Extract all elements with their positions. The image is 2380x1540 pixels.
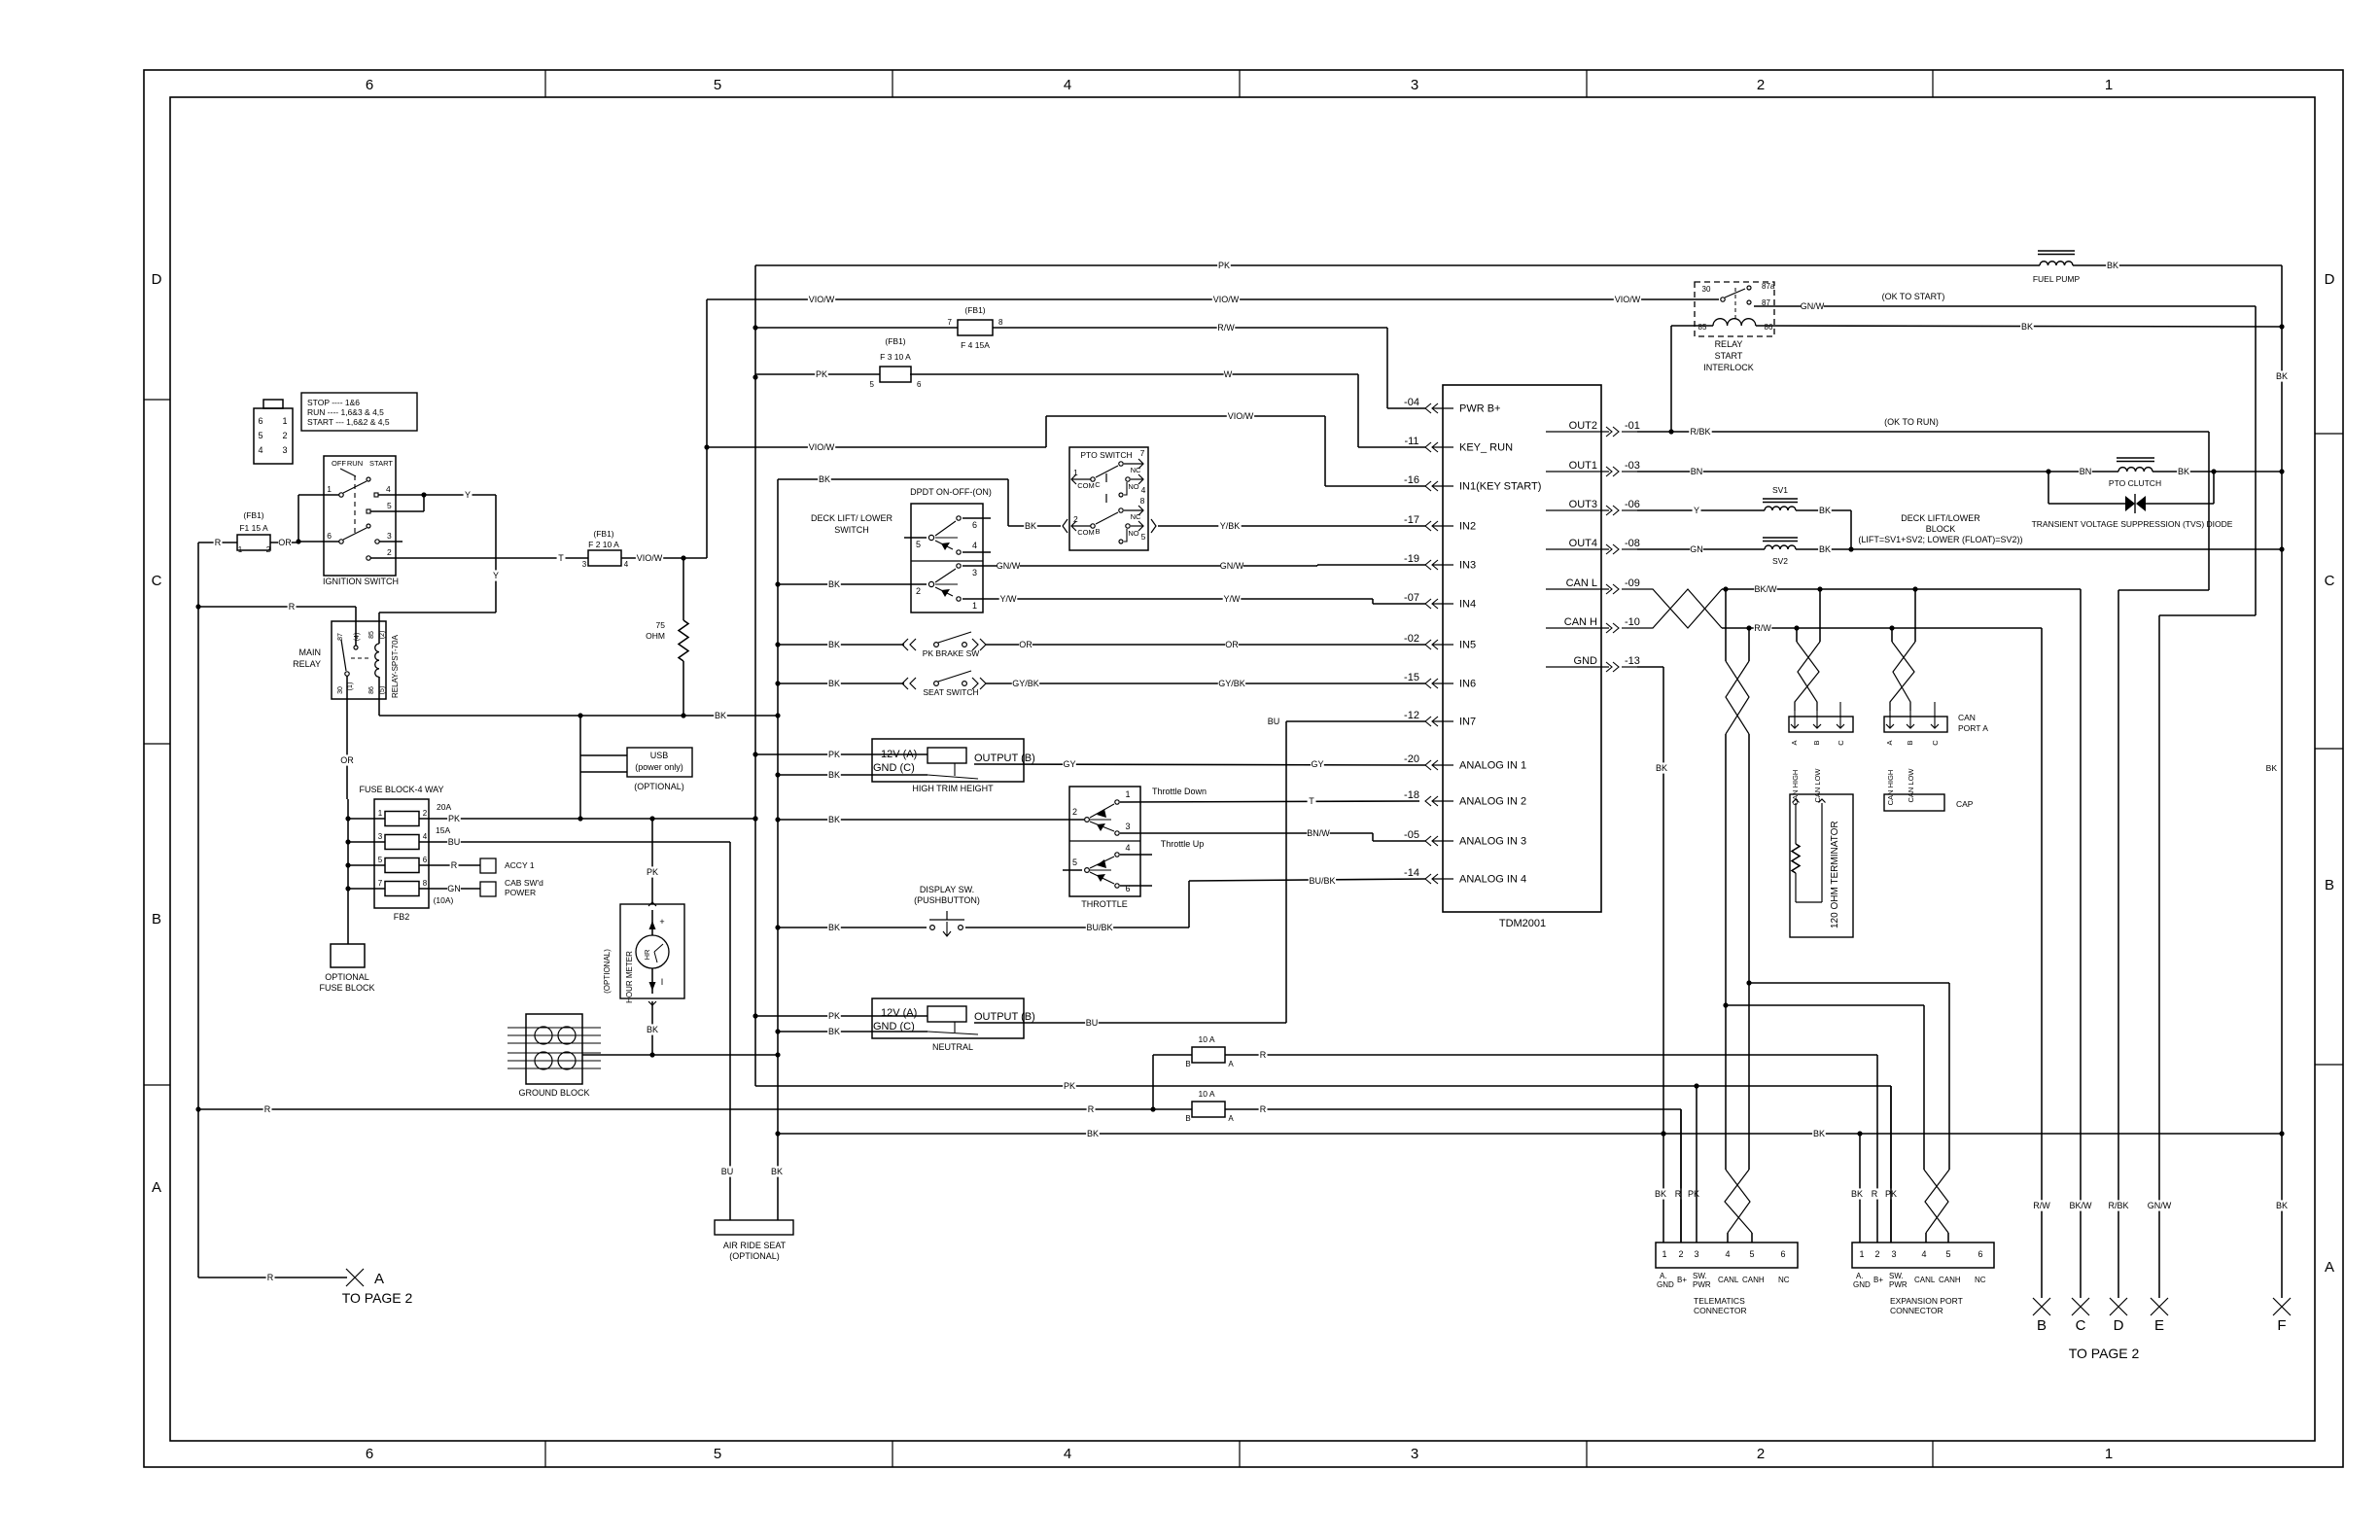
svg-text:A.: A.: [1856, 1272, 1864, 1280]
svg-text:OHM: OHM: [646, 631, 665, 641]
svg-text:BN: BN: [2080, 467, 2092, 476]
svg-text:ANALOG IN 3: ANALOG IN 3: [1459, 836, 1526, 848]
svg-text:BK: BK: [828, 815, 840, 824]
svg-text:START --- 1,6&2 & 4,5: START --- 1,6&2 & 4,5: [307, 417, 390, 427]
svg-text:1: 1: [1125, 789, 1130, 799]
svg-text:A: A: [374, 1271, 384, 1287]
wire BN/W throttle up to ANALOG IN3: [1120, 832, 1373, 834]
svg-text:PWR: PWR: [1693, 1280, 1711, 1289]
svg-text:BK: BK: [771, 1167, 783, 1176]
telematics connector J2: [1656, 1242, 1798, 1268]
svg-text:(OK TO RUN): (OK TO RUN): [1884, 417, 1939, 427]
svg-text:(OK TO START): (OK TO START): [1882, 292, 1945, 301]
to page 2 marker E: [2151, 1298, 2168, 1315]
svg-text:4: 4: [1125, 843, 1130, 853]
wire R left vertical: [197, 542, 199, 1277]
svg-text:VIO/W: VIO/W: [809, 442, 835, 452]
svg-text:SV1: SV1: [1772, 485, 1788, 495]
svg-text:BN/W: BN/W: [1307, 828, 1330, 838]
svg-text:F1 15 A: F1 15 A: [239, 523, 268, 533]
optional fuse block box: [347, 908, 349, 944]
telematics wire labels: [1654, 1188, 1667, 1199]
twisted pair to CAN PORT A left: [1819, 589, 1821, 642]
svg-text:IN2: IN2: [1459, 521, 1476, 533]
wire R/BK OUT2 ok-to-run: [1637, 431, 2209, 433]
svg-text:1: 1: [1662, 1249, 1666, 1259]
wire T throttle down to ANALOG IN2: [1120, 801, 1419, 802]
svg-text:DECK LIFT/ LOWER: DECK LIFT/ LOWER: [811, 513, 893, 523]
svg-text:BK: BK: [819, 474, 830, 484]
svg-text:30: 30: [1702, 285, 1711, 294]
wire BK to neutral C: [778, 1031, 927, 1032]
svg-text:4: 4: [1064, 1446, 1071, 1462]
potentiometer block HIGH TRIM HEIGHT: [872, 739, 1024, 782]
ignition switch contact 4: [374, 493, 378, 497]
svg-text:10 A: 10 A: [1198, 1089, 1214, 1099]
svg-text:10 A: 10 A: [1198, 1034, 1214, 1044]
svg-text:GN/W: GN/W: [1220, 561, 1244, 571]
ignition switch contact 5: [367, 509, 370, 513]
svg-text:3: 3: [1891, 1249, 1896, 1259]
svg-text:PK: PK: [1064, 1081, 1075, 1091]
svg-text:CAN LOW: CAN LOW: [1813, 768, 1822, 803]
svg-text:BK: BK: [1656, 763, 1667, 773]
svg-text:2: 2: [266, 545, 271, 554]
svg-text:5: 5: [258, 431, 262, 440]
svg-text:AIR RIDE SEAT: AIR RIDE SEAT: [723, 1241, 787, 1250]
svg-text:GND (C): GND (C): [873, 1021, 915, 1032]
svg-text:1: 1: [2105, 1446, 2113, 1462]
svg-text:CONNECTOR: CONNECTOR: [1890, 1306, 1943, 1315]
svg-text:OFF: OFF: [332, 459, 346, 468]
to page 2 marker F: [2273, 1298, 2291, 1315]
svg-text:D: D: [2114, 1317, 2124, 1334]
svg-text:NC: NC: [1975, 1276, 1986, 1284]
svg-text:POWER: POWER: [505, 888, 536, 897]
svg-text:GN/W: GN/W: [2148, 1201, 2172, 1210]
ACCY 1 box: [480, 858, 496, 873]
svg-text:I: I: [661, 977, 664, 987]
svg-text:-13: -13: [1625, 655, 1640, 667]
svg-text:-18: -18: [1404, 789, 1419, 801]
svg-text:Y/W: Y/W: [1224, 594, 1242, 604]
wire GY high trim B to ANALOG IN1: [974, 764, 1425, 765]
svg-text:PWR: PWR: [1889, 1280, 1907, 1289]
svg-text:7: 7: [1140, 448, 1145, 458]
svg-text:(PUSHBUTTON): (PUSHBUTTON): [914, 895, 980, 905]
svg-text:NC: NC: [1131, 466, 1141, 474]
to page 2 marker A: [346, 1269, 364, 1286]
main relay blade and pivot: [341, 640, 346, 671]
svg-text:OUTPUT (B): OUTPUT (B): [974, 752, 1035, 764]
svg-text:PK: PK: [816, 369, 827, 379]
svg-text:PK BRAKE SW: PK BRAKE SW: [923, 648, 980, 658]
svg-text:CAN HIGH: CAN HIGH: [1886, 770, 1895, 806]
wire R from FB2 to ACCY1: [419, 864, 480, 866]
svg-text:2: 2: [282, 431, 287, 440]
ignition switch blade pole 6: [343, 528, 367, 540]
svg-text:RELAY: RELAY: [293, 659, 321, 669]
svg-text:CANL: CANL: [1914, 1276, 1936, 1284]
svg-text:-15: -15: [1404, 672, 1419, 683]
svg-text:B: B: [1906, 740, 1914, 745]
svg-text:-11: -11: [1404, 436, 1418, 447]
svg-text:KEY_ RUN: KEY_ RUN: [1459, 442, 1513, 454]
PTO pole B NC contact: [1119, 508, 1123, 512]
svg-text:5: 5: [916, 540, 921, 549]
svg-text:BU: BU: [1086, 1018, 1099, 1028]
svg-text:-03: -03: [1625, 460, 1640, 472]
svg-text:1: 1: [2105, 77, 2113, 93]
VIO/W feed vertical: [706, 299, 708, 558]
svg-text:GN/W: GN/W: [1801, 301, 1825, 311]
svg-text:ANALOG IN 1: ANALOG IN 1: [1459, 760, 1526, 772]
svg-text:3: 3: [972, 568, 977, 577]
svg-text:3: 3: [582, 560, 587, 569]
svg-text:C: C: [152, 573, 162, 589]
svg-text:IN5: IN5: [1459, 640, 1476, 651]
frame column ticks top: [544, 70, 546, 97]
air ride seat box: [715, 1220, 793, 1235]
wire GN from FB2 to CAB power: [419, 888, 480, 890]
svg-text:BK: BK: [1087, 1129, 1099, 1138]
svg-text:C: C: [1095, 480, 1101, 489]
terminator 120 ohm box: [1790, 794, 1853, 937]
svg-text:87a: 87a: [1762, 282, 1775, 291]
svg-text:7: 7: [948, 318, 953, 327]
svg-text:B: B: [2037, 1317, 2047, 1334]
svg-text:5: 5: [378, 856, 383, 864]
svg-text:PK: PK: [1218, 261, 1230, 270]
throttle pole 5: [1085, 868, 1090, 873]
wire R bottom run: [198, 1108, 1681, 1110]
svg-text:CANH: CANH: [1742, 1276, 1765, 1284]
svg-text:TDM2001: TDM2001: [1499, 918, 1546, 929]
svg-text:PORT A: PORT A: [1958, 723, 1988, 733]
wire ground block to bus: [582, 1054, 778, 1056]
svg-text:C: C: [1931, 740, 1940, 746]
svg-text:1: 1: [1859, 1249, 1864, 1259]
svg-text:(LIFT=SV1+SV2; LOWER (FLOAT)=S: (LIFT=SV1+SV2; LOWER (FLOAT)=SV2)): [1858, 535, 2022, 544]
svg-text:BU/BK: BU/BK: [1309, 876, 1335, 886]
svg-text:4: 4: [624, 560, 629, 569]
svg-text:FUSE BLOCK-4 WAY: FUSE BLOCK-4 WAY: [359, 785, 443, 794]
svg-text:A: A: [1228, 1114, 1234, 1123]
svg-text:87: 87: [337, 633, 344, 641]
svg-text:-09: -09: [1625, 577, 1640, 589]
svg-text:NC: NC: [1778, 1276, 1790, 1284]
svg-text:SWITCH: SWITCH: [834, 525, 869, 535]
svg-text:GY/BK: GY/BK: [1012, 679, 1039, 688]
wire BK to PTO switch: [778, 478, 1008, 480]
svg-text:GN: GN: [447, 884, 461, 893]
svg-text:6: 6: [1780, 1249, 1785, 1259]
svg-text:RELAY: RELAY: [1715, 339, 1743, 349]
wire OR main relay 30 to fuse block: [346, 676, 348, 699]
svg-text:BK: BK: [1655, 1189, 1666, 1199]
svg-text:B: B: [1185, 1060, 1190, 1068]
svg-text:GROUND BLOCK: GROUND BLOCK: [518, 1088, 589, 1098]
svg-text:IN1(KEY START): IN1(KEY START): [1459, 481, 1541, 493]
svg-text:5: 5: [387, 501, 392, 510]
svg-text:2: 2: [916, 586, 921, 596]
svg-text:Y: Y: [1694, 506, 1699, 515]
wire PK to neutral A: [755, 1015, 927, 1017]
svg-text:R/W: R/W: [1754, 623, 1771, 633]
svg-text:B: B: [152, 911, 161, 927]
svg-text:VIO/W: VIO/W: [1213, 295, 1240, 304]
to page 2 marker D: [2110, 1298, 2127, 1315]
svg-text:3: 3: [1411, 1446, 1418, 1462]
svg-text:F 4 15A: F 4 15A: [961, 340, 990, 350]
ignition switch contact 3: [375, 540, 379, 543]
svg-text:Y/BK: Y/BK: [1220, 521, 1241, 531]
svg-text:C: C: [1837, 740, 1845, 746]
svg-text:3: 3: [1411, 77, 1418, 93]
svg-text:RELAY-SPST-70A: RELAY-SPST-70A: [391, 634, 400, 698]
svg-text:BU: BU: [1268, 717, 1280, 726]
deck lift/lower switch S2 DPDT box: [911, 504, 983, 612]
svg-text:PK: PK: [1688, 1189, 1699, 1199]
svg-text:R: R: [1088, 1104, 1095, 1114]
svg-text:A: A: [1885, 740, 1894, 745]
svg-text:2: 2: [423, 809, 428, 818]
svg-text:4: 4: [972, 541, 977, 550]
svg-text:75: 75: [656, 620, 666, 630]
svg-text:NEUTRAL: NEUTRAL: [932, 1042, 973, 1052]
svg-text:(OPTIONAL): (OPTIONAL): [603, 949, 612, 994]
svg-text:15A: 15A: [436, 825, 450, 835]
wire BK PTO clutch to right bus: [2152, 471, 2282, 472]
svg-text:TO PAGE 2: TO PAGE 2: [342, 1290, 413, 1306]
svg-text:VIO/W: VIO/W: [637, 553, 663, 563]
svg-text:2: 2: [1874, 1249, 1879, 1259]
TVS diode D1: [2047, 472, 2049, 504]
svg-text:R/BK: R/BK: [1690, 427, 1710, 437]
expansion wire labels: [1850, 1188, 1864, 1199]
svg-text:6: 6: [327, 531, 332, 541]
twisted pair to CAN PORT A right: [1914, 589, 1916, 642]
svg-text:GND (C): GND (C): [873, 762, 915, 774]
svg-text:CAB SW'd: CAB SW'd: [505, 878, 543, 888]
svg-text:DECK LIFT/LOWER: DECK LIFT/LOWER: [1901, 513, 1980, 523]
svg-text:R: R: [451, 860, 458, 870]
svg-text:BK: BK: [1025, 521, 1036, 531]
wire BK to air ride seat: [770, 1166, 784, 1176]
svg-text:1: 1: [327, 484, 332, 494]
svg-text:5: 5: [870, 380, 875, 389]
svg-text:5: 5: [1945, 1249, 1950, 1259]
svg-text:CANH: CANH: [1939, 1276, 1961, 1284]
ignition switch contact 1: [339, 493, 343, 497]
svg-text:85: 85: [1698, 323, 1707, 332]
svg-text:GND: GND: [1657, 1280, 1674, 1289]
svg-text:BK: BK: [828, 770, 840, 780]
switch PK BRAKE SW: [778, 644, 904, 646]
wire BK main relay to ground bus: [379, 715, 778, 717]
USB power box: [627, 748, 692, 777]
svg-text:BU/BK: BU/BK: [1086, 923, 1112, 932]
svg-text:DISPLAY SW.: DISPLAY SW.: [920, 885, 974, 894]
wire USB pins to bus: [579, 716, 581, 819]
svg-text:IN7: IN7: [1459, 717, 1476, 728]
svg-text:(OPTIONAL): (OPTIONAL): [729, 1251, 780, 1261]
main relay coil: [375, 644, 379, 677]
svg-text:OR: OR: [278, 538, 292, 547]
svg-text:OPTIONAL: OPTIONAL: [325, 972, 369, 982]
svg-text:(FB1): (FB1): [243, 510, 263, 520]
svg-text:R/W: R/W: [2033, 1201, 2050, 1210]
svg-text:86: 86: [368, 686, 375, 694]
ignition switch contact 2: [367, 556, 370, 560]
BK ground bus vertical: [777, 479, 779, 1220]
relay K2 start interlock dashed box: [1695, 282, 1774, 336]
svg-text:SV2: SV2: [1772, 556, 1788, 566]
wire ignition pin3 stub: [379, 541, 402, 542]
svg-text:(FB1): (FB1): [885, 336, 905, 346]
svg-text:3: 3: [378, 832, 383, 841]
svg-text:3: 3: [1125, 822, 1130, 831]
svg-text:20A: 20A: [437, 802, 451, 812]
svg-text:F 2 10 A: F 2 10 A: [588, 540, 619, 549]
svg-text:BK: BK: [2266, 763, 2278, 773]
svg-text:CANL: CANL: [1718, 1276, 1739, 1284]
svg-text:4: 4: [386, 484, 391, 494]
DPDT pole 2 common: [928, 581, 933, 586]
svg-text:GND: GND: [1574, 655, 1598, 667]
svg-text:RUN ---- 1,6&3 & 4,5: RUN ---- 1,6&3 & 4,5: [307, 407, 384, 417]
svg-text:(10A): (10A): [434, 895, 454, 905]
wire main relay 86 to BK: [378, 677, 380, 716]
main relay fixed contact: [355, 607, 357, 646]
svg-text:(5): (5): [379, 686, 386, 695]
svg-text:IN6: IN6: [1459, 679, 1476, 690]
svg-text:6: 6: [917, 380, 922, 389]
svg-text:TELEMATICS: TELEMATICS: [1694, 1296, 1745, 1306]
FB2 fuse row 3/4: [348, 841, 385, 843]
svg-text:6: 6: [972, 520, 977, 530]
svg-text:NO: NO: [1128, 482, 1138, 491]
wire R into fuse F1: [198, 542, 237, 543]
svg-text:MAIN: MAIN: [299, 647, 322, 657]
hour meter box: [620, 904, 684, 998]
svg-text:5: 5: [714, 1446, 721, 1462]
svg-text:A: A: [1790, 740, 1799, 745]
hour meter circle HR: [636, 935, 669, 968]
wire ignition pin4 pin5 jumper: [378, 494, 424, 496]
svg-text:B: B: [1095, 527, 1100, 536]
svg-text:D: D: [2325, 271, 2335, 288]
ground block box: [526, 1014, 582, 1084]
PTO pole C NC contact: [1119, 462, 1123, 466]
wire BK SV1 to SV2 join: [1796, 509, 1851, 511]
svg-text:4: 4: [1064, 77, 1071, 93]
svg-text:PK: PK: [828, 750, 840, 759]
wire R/W CAN H run: [1722, 627, 2042, 629]
fuse block FB2 4-way box: [374, 799, 429, 908]
wire T ignition pin2 to fuse F2: [370, 557, 588, 559]
wire BK GND -13: [1637, 666, 1663, 668]
ignition switch S1 box: [324, 456, 396, 576]
wire PK bottom run: [755, 1085, 1891, 1087]
svg-text:CAN H: CAN H: [1564, 616, 1597, 628]
svg-text:T: T: [558, 553, 564, 563]
svg-text:BK: BK: [828, 640, 840, 649]
wire OR from F1 to ignition: [270, 542, 298, 543]
svg-text:FB2: FB2: [394, 912, 410, 922]
svg-text:D: D: [152, 271, 162, 288]
PTO clutch L1 coil: [2117, 457, 2154, 459]
svg-text:PWR B+: PWR B+: [1459, 403, 1500, 415]
svg-text:BK: BK: [1851, 1189, 1863, 1199]
expansion port connector J3: [1852, 1242, 1994, 1268]
svg-text:VIO/W: VIO/W: [1615, 295, 1641, 304]
svg-text:GND: GND: [1853, 1280, 1871, 1289]
svg-text:4: 4: [258, 445, 262, 455]
PTO pole B NO contact: [1126, 524, 1130, 528]
svg-text:A: A: [2325, 1259, 2334, 1276]
svg-text:USB: USB: [650, 751, 669, 760]
wire W to KEY_RUN: [910, 373, 1358, 375]
svg-text:GY/BK: GY/BK: [1218, 679, 1245, 688]
wire R to page2 A: [198, 1277, 347, 1278]
frame row ticks left: [144, 399, 170, 401]
wire labels above page2 markers: [2033, 1200, 2051, 1210]
wire BK to DPDT pole2: [778, 583, 927, 585]
wire Y/W DPDT to IN4: [962, 598, 1373, 600]
svg-text:COM: COM: [1077, 481, 1095, 490]
svg-text:EXPANSION PORT: EXPANSION PORT: [1890, 1296, 1963, 1306]
svg-text:CAN LOW: CAN LOW: [1907, 768, 1915, 803]
fuse F6 10A branch: [1152, 1055, 1154, 1109]
svg-text:COM: COM: [1077, 528, 1095, 537]
svg-text:B: B: [1812, 740, 1821, 745]
svg-text:OUT4: OUT4: [1569, 538, 1597, 549]
svg-text:Y: Y: [493, 571, 499, 580]
svg-text:85: 85: [368, 631, 375, 639]
wire Y/BK PTO to IN2: [1151, 519, 1156, 533]
svg-text:HOUR METER: HOUR METER: [625, 951, 634, 1003]
svg-text:STOP ---- 1&6: STOP ---- 1&6: [307, 398, 360, 407]
svg-text:HIGH TRIM HEIGHT: HIGH TRIM HEIGHT: [912, 784, 994, 793]
svg-text:R: R: [289, 602, 296, 612]
svg-text:(FB1): (FB1): [964, 305, 985, 315]
ignition switch blade pole 1: [343, 481, 367, 493]
svg-text:ACCY 1: ACCY 1: [505, 860, 535, 870]
wire BK telematics branch: [1859, 1134, 1861, 1242]
svg-text:3: 3: [1694, 1249, 1698, 1259]
svg-text:8: 8: [998, 318, 1003, 327]
svg-text:2: 2: [1678, 1249, 1683, 1259]
svg-text:ANALOG IN 4: ANALOG IN 4: [1459, 874, 1526, 886]
svg-text:-12: -12: [1404, 710, 1419, 721]
to page 2 marker C: [2072, 1298, 2089, 1315]
svg-text:2: 2: [1757, 77, 1765, 93]
svg-text:R/W: R/W: [1217, 323, 1235, 332]
svg-text:OUT1: OUT1: [1569, 460, 1597, 472]
svg-text:-10: -10: [1625, 616, 1640, 628]
svg-text:-19: -19: [1404, 553, 1419, 565]
svg-text:CAN L: CAN L: [1566, 577, 1597, 589]
hour meter minus lead: [651, 968, 653, 994]
svg-text:E: E: [2154, 1317, 2164, 1334]
svg-text:7: 7: [378, 879, 383, 888]
svg-text:2: 2: [1757, 1446, 1765, 1462]
svg-text:Throttle Down: Throttle Down: [1152, 787, 1207, 796]
svg-text:IGNITION SWITCH: IGNITION SWITCH: [323, 577, 399, 586]
svg-text:GY: GY: [1311, 759, 1323, 769]
wire PK fuse F3 run: [755, 373, 881, 375]
